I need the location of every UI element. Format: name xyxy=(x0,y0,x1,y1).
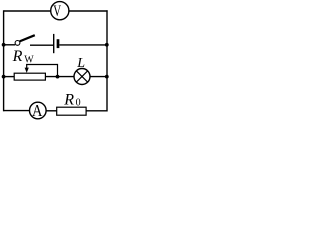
svg-text:V: V xyxy=(53,2,61,20)
node junction row3 left xyxy=(2,75,6,79)
node junction row2 left xyxy=(2,43,6,47)
wire row4 to ammeter xyxy=(4,110,30,112)
wire row3 rheostat to lamp xyxy=(45,76,74,78)
wire left rail xyxy=(3,10,5,111)
ammeter A xyxy=(30,102,47,120)
label R0 xyxy=(63,91,80,108)
resistor R0 xyxy=(57,107,86,115)
node junction slider tap xyxy=(56,75,60,79)
svg-text:L: L xyxy=(76,56,85,71)
battery cell xyxy=(54,34,58,53)
svg-text:0: 0 xyxy=(76,98,81,109)
node junction row2 right xyxy=(105,43,109,47)
node junction row3 right xyxy=(105,75,109,79)
wire top-left segment xyxy=(4,10,51,12)
svg-text:R: R xyxy=(12,48,23,65)
lamp L xyxy=(74,69,90,85)
label RW xyxy=(12,48,35,66)
svg-text:A: A xyxy=(32,102,43,120)
rheostat RW xyxy=(14,64,57,80)
voltmeter V xyxy=(51,2,69,20)
wire row2 battery to right rail xyxy=(59,44,107,46)
wire row3 lamp to right rail xyxy=(90,76,107,78)
wire row2 to switch xyxy=(4,44,16,46)
wire right rail xyxy=(106,10,108,111)
switch S xyxy=(15,35,35,45)
wire top-right segment xyxy=(69,10,108,12)
wire row4 ammeter to resistor xyxy=(46,110,57,112)
wire row4 resistor to right rail xyxy=(86,110,107,112)
wire row3 to rheostat xyxy=(4,76,15,78)
svg-text:R: R xyxy=(63,91,74,108)
wire row2 switch to battery xyxy=(30,44,53,46)
svg-text:W: W xyxy=(24,55,34,66)
